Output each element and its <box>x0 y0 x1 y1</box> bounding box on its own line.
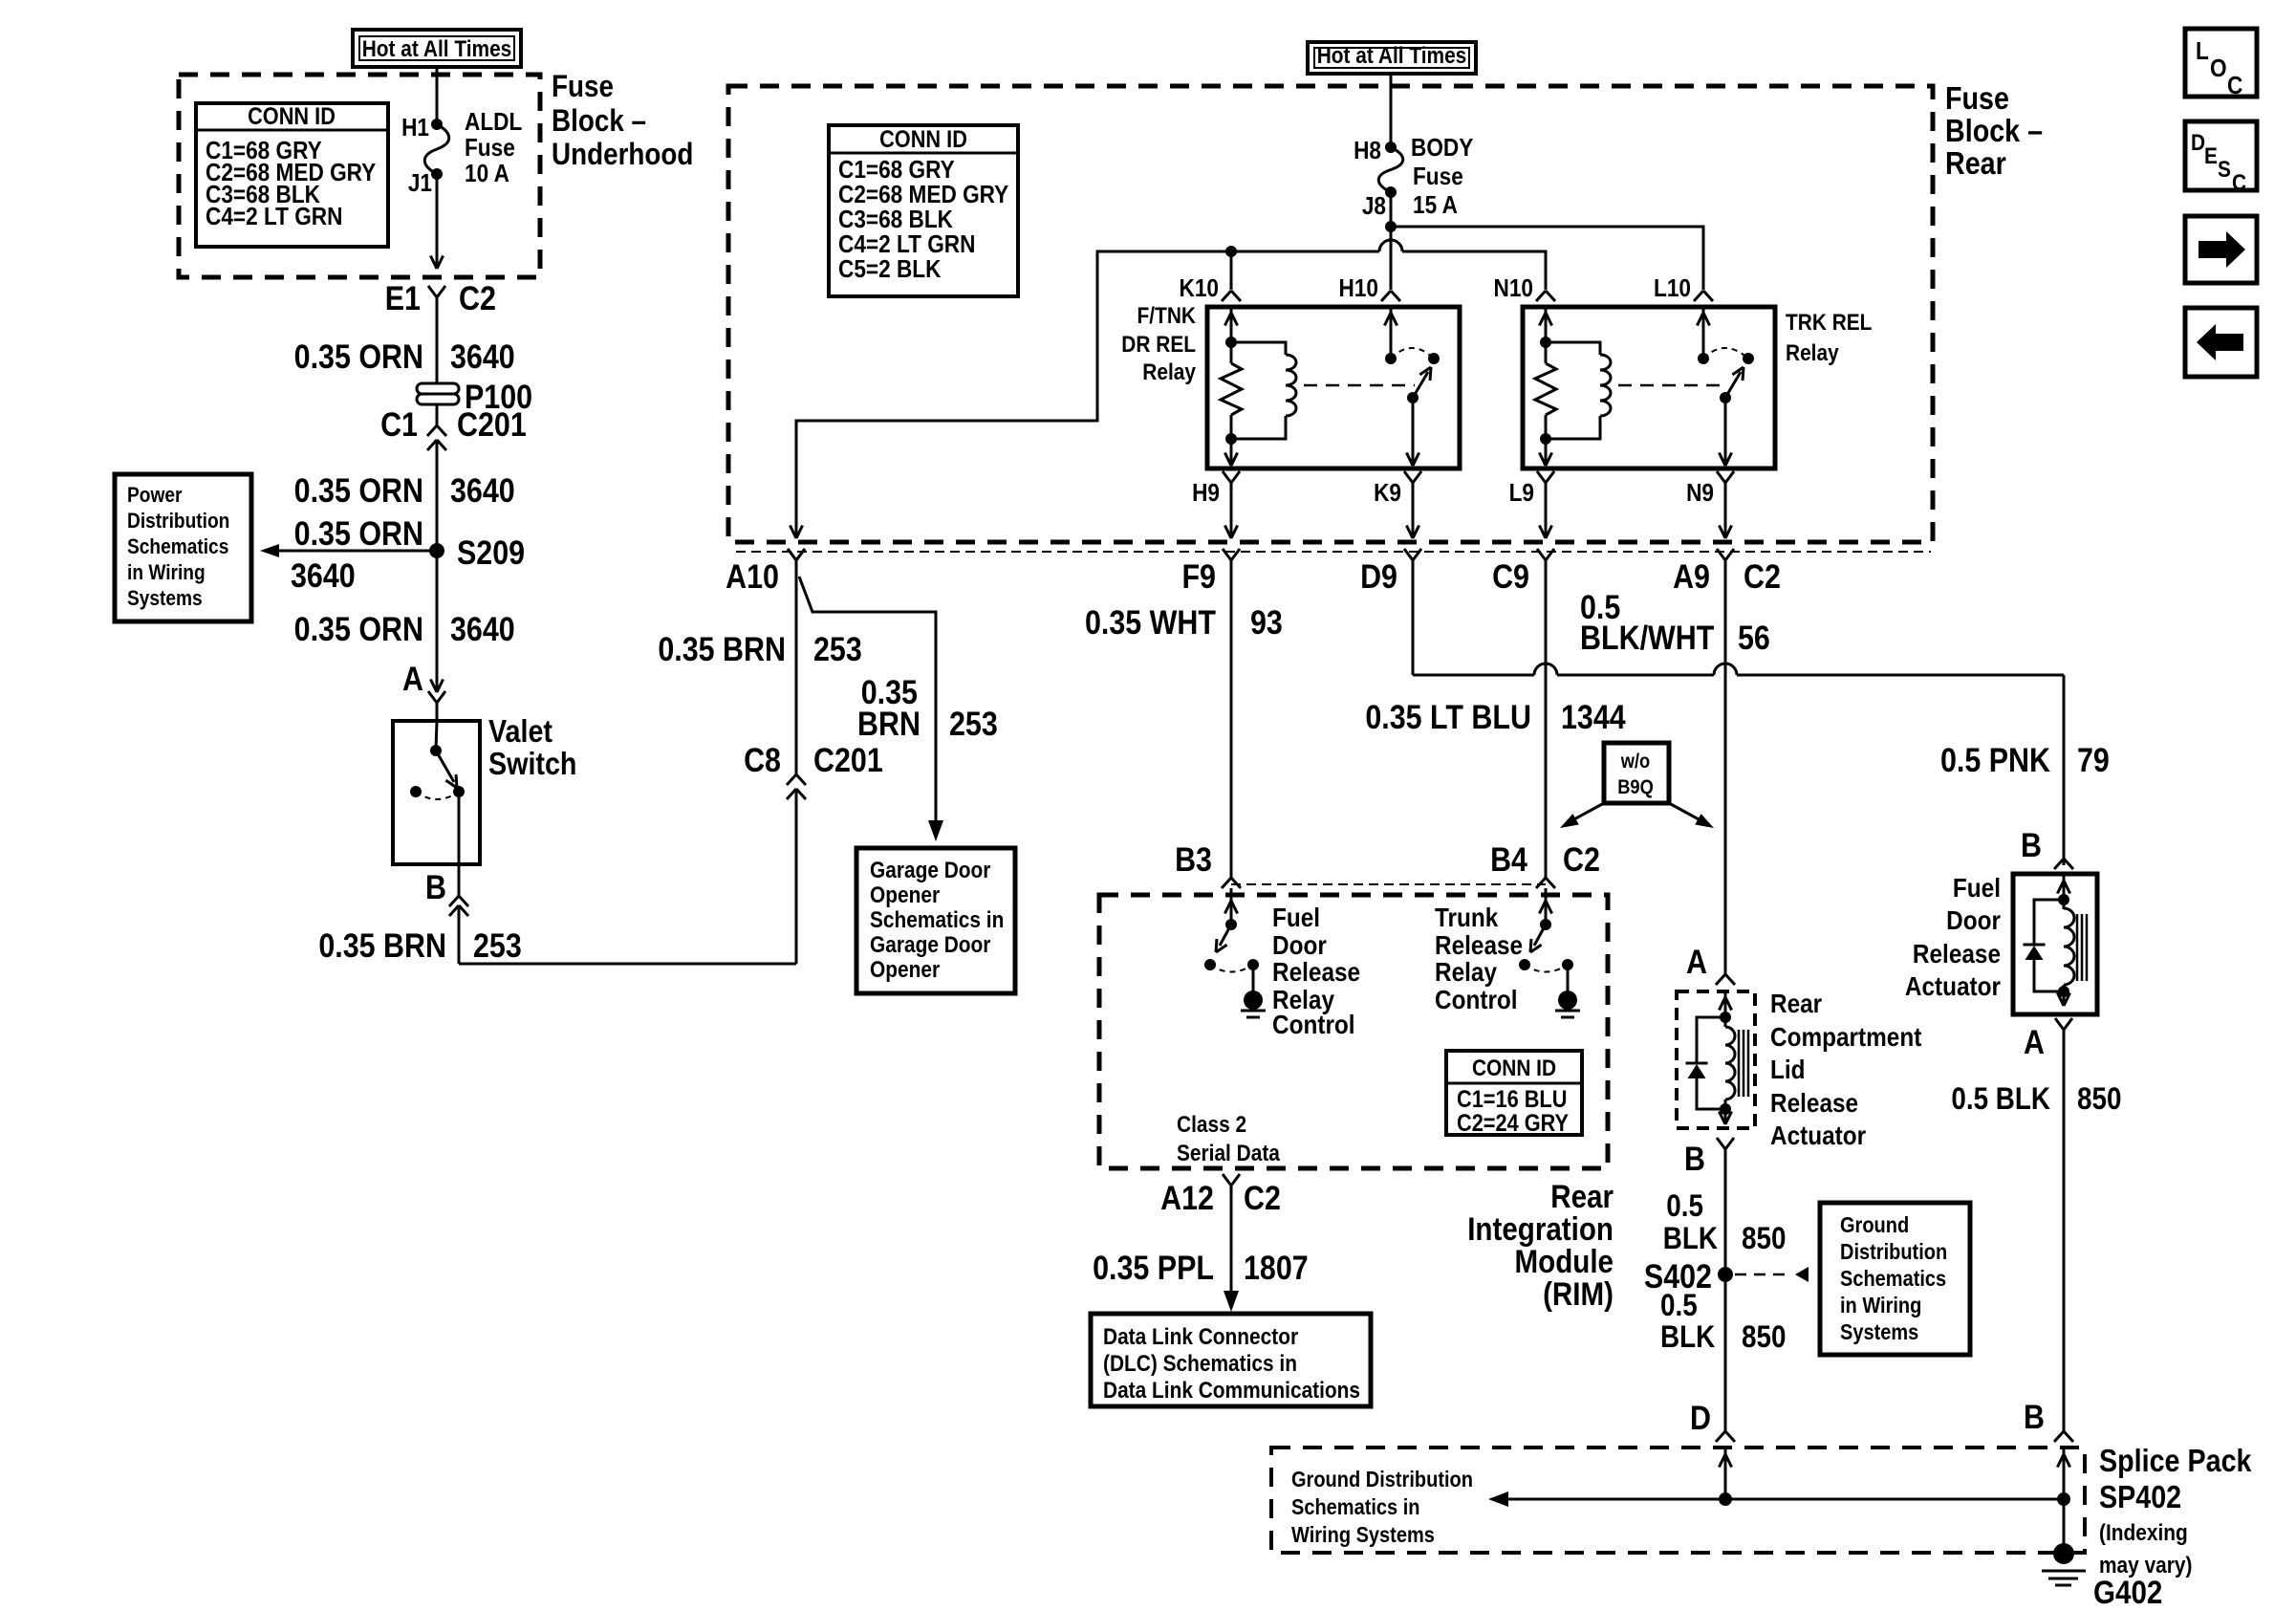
svg-text:0.35 BRN: 0.35 BRN <box>658 630 786 667</box>
svg-text:B: B <box>425 868 446 905</box>
svg-text:CONN ID: CONN ID <box>248 103 336 130</box>
svg-text:Actuator: Actuator <box>1770 1120 1866 1150</box>
svg-text:BODY: BODY <box>1411 135 1473 163</box>
svg-text:B: B <box>2024 1398 2045 1435</box>
svg-text:D: D <box>2191 130 2205 156</box>
svg-text:1344: 1344 <box>1561 698 1626 735</box>
svg-text:B4: B4 <box>1490 840 1528 878</box>
svg-text:Release: Release <box>1272 956 1360 987</box>
svg-text:C2: C2 <box>1244 1179 1281 1216</box>
svg-text:C2: C2 <box>459 279 496 316</box>
svg-text:C4=2 LT GRN: C4=2 LT GRN <box>206 204 342 231</box>
svg-text:850: 850 <box>2077 1082 2121 1116</box>
svg-text:C2=24 GRY: C2=24 GRY <box>1457 1110 1569 1137</box>
svg-text:BLK: BLK <box>1660 1320 1716 1354</box>
svg-text:Release: Release <box>1770 1087 1858 1118</box>
svg-text:C201: C201 <box>457 405 527 443</box>
svg-text:0.5 BLK: 0.5 BLK <box>1951 1082 2050 1116</box>
svg-text:B9Q: B9Q <box>1617 776 1654 798</box>
svg-text:H1: H1 <box>401 115 429 142</box>
svg-text:L10: L10 <box>1654 275 1691 303</box>
svg-text:10 A: 10 A <box>465 161 509 188</box>
svg-text:Module: Module <box>1515 1243 1614 1279</box>
svg-text:F/TNK: F/TNK <box>1137 303 1197 329</box>
svg-text:0.5: 0.5 <box>1666 1189 1703 1223</box>
svg-text:15 A: 15 A <box>1413 192 1458 220</box>
svg-text:Opener: Opener <box>870 882 940 908</box>
svg-text:H10: H10 <box>1339 275 1378 303</box>
svg-text:D: D <box>1690 1399 1711 1436</box>
svg-text:Schematics: Schematics <box>1840 1266 1946 1292</box>
svg-text:0.5 PNK: 0.5 PNK <box>1940 741 2050 778</box>
svg-text:Relay: Relay <box>1435 956 1497 987</box>
svg-text:H9: H9 <box>1192 480 1220 508</box>
svg-text:A: A <box>1686 943 1707 980</box>
svg-text:TRK REL: TRK REL <box>1786 310 1873 336</box>
svg-text:Distribution: Distribution <box>1840 1239 1947 1265</box>
svg-text:Systems: Systems <box>127 587 203 611</box>
svg-text:Ground: Ground <box>1840 1212 1909 1238</box>
svg-text:L: L <box>2196 38 2209 66</box>
svg-text:Schematics in: Schematics in <box>870 907 1004 933</box>
svg-text:SP402: SP402 <box>2099 1479 2181 1514</box>
svg-text:CONN ID: CONN ID <box>1472 1056 1556 1081</box>
svg-text:Schematics: Schematics <box>127 535 228 559</box>
svg-text:C: C <box>2232 170 2246 196</box>
svg-text:850: 850 <box>1742 1320 1786 1354</box>
svg-text:(Indexing: (Indexing <box>2099 1520 2188 1546</box>
svg-text:B: B <box>1684 1140 1705 1177</box>
svg-text:w/o: w/o <box>1620 751 1650 773</box>
svg-text:Garage Door: Garage Door <box>870 932 991 958</box>
svg-text:Integration: Integration <box>1467 1210 1614 1247</box>
svg-text:253: 253 <box>813 630 862 667</box>
svg-text:C: C <box>2227 73 2242 100</box>
svg-text:Block –: Block – <box>1945 113 2043 148</box>
svg-text:Opener: Opener <box>870 957 940 983</box>
svg-text:253: 253 <box>949 705 998 742</box>
svg-text:J8: J8 <box>1362 193 1386 221</box>
svg-text:C9: C9 <box>1492 557 1529 595</box>
svg-text:1807: 1807 <box>1244 1249 1309 1286</box>
svg-text:Rear: Rear <box>1550 1178 1614 1214</box>
svg-text:Fuse: Fuse <box>1945 80 2009 116</box>
svg-text:0.35 PPL: 0.35 PPL <box>1093 1249 1214 1286</box>
svg-text:Compartment: Compartment <box>1770 1021 1922 1052</box>
svg-text:E1: E1 <box>385 279 421 316</box>
svg-text:0.35 ORN: 0.35 ORN <box>294 337 423 375</box>
svg-text:Schematics in: Schematics in <box>1291 1494 1420 1520</box>
svg-text:Valet: Valet <box>488 713 552 749</box>
svg-text:Hot at All Times: Hot at All Times <box>362 36 512 62</box>
svg-text:N10: N10 <box>1494 275 1533 303</box>
svg-text:Systems: Systems <box>1840 1319 1918 1345</box>
svg-text:L9: L9 <box>1509 480 1534 508</box>
svg-text:3640: 3640 <box>291 556 356 594</box>
svg-text:K9: K9 <box>1374 480 1401 508</box>
svg-text:253: 253 <box>473 926 522 964</box>
svg-text:K10: K10 <box>1180 275 1219 303</box>
svg-text:O: O <box>2210 55 2227 83</box>
svg-text:0.35 LT BLU: 0.35 LT BLU <box>1365 698 1531 735</box>
svg-text:B3: B3 <box>1175 840 1212 878</box>
svg-text:93: 93 <box>1250 603 1283 641</box>
svg-text:ALDL: ALDL <box>465 109 522 137</box>
svg-text:Door: Door <box>1946 904 2001 935</box>
svg-text:Actuator: Actuator <box>1905 970 2001 1001</box>
svg-text:J1: J1 <box>408 170 432 198</box>
svg-text:C1: C1 <box>380 405 418 443</box>
svg-text:Trunk: Trunk <box>1435 902 1499 932</box>
svg-text:0.35 ORN: 0.35 ORN <box>294 610 423 647</box>
svg-text:3640: 3640 <box>450 471 515 509</box>
svg-text:Rear: Rear <box>1770 988 1822 1018</box>
svg-text:D9: D9 <box>1360 557 1397 595</box>
svg-text:B: B <box>2021 826 2042 863</box>
svg-text:Ground Distribution: Ground Distribution <box>1291 1467 1473 1492</box>
svg-text:S209: S209 <box>457 533 525 571</box>
svg-text:79: 79 <box>2077 741 2110 778</box>
svg-text:Control: Control <box>1272 1009 1355 1039</box>
svg-text:Splice Pack: Splice Pack <box>2099 1443 2252 1478</box>
svg-text:Garage Door: Garage Door <box>870 858 991 883</box>
svg-text:DR REL: DR REL <box>1121 332 1196 358</box>
svg-text:3640: 3640 <box>450 610 515 647</box>
svg-text:A: A <box>402 660 423 697</box>
svg-text:BRN: BRN <box>857 705 921 742</box>
svg-text:N9: N9 <box>1686 480 1714 508</box>
svg-text:C201: C201 <box>813 741 883 778</box>
svg-text:A: A <box>2024 1023 2045 1060</box>
svg-text:S: S <box>2218 157 2231 183</box>
svg-text:F9: F9 <box>1181 557 1216 595</box>
svg-text:Data Link Connector: Data Link Connector <box>1103 1324 1298 1350</box>
svg-text:Hot at All Times: Hot at All Times <box>1317 43 1467 69</box>
svg-text:Fuse: Fuse <box>552 70 614 103</box>
svg-text:C8: C8 <box>744 741 781 778</box>
svg-text:Power: Power <box>127 484 182 508</box>
svg-text:BLK/WHT: BLK/WHT <box>1580 619 1714 656</box>
svg-text:Serial Data: Serial Data <box>1177 1141 1280 1166</box>
svg-text:Control: Control <box>1435 984 1518 1014</box>
svg-text:C2=68 MED GRY: C2=68 MED GRY <box>838 182 1008 209</box>
svg-text:Relay: Relay <box>1786 340 1839 366</box>
svg-text:(DLC) Schematics in: (DLC) Schematics in <box>1103 1351 1297 1377</box>
svg-text:C5=2 BLK: C5=2 BLK <box>838 256 942 284</box>
svg-text:(RIM): (RIM) <box>1543 1275 1614 1312</box>
svg-text:C4=2 LT GRN: C4=2 LT GRN <box>838 231 975 259</box>
svg-text:G402: G402 <box>2093 1574 2162 1610</box>
svg-text:C1=68 GRY: C1=68 GRY <box>838 157 955 185</box>
svg-text:Release: Release <box>1913 938 2001 969</box>
svg-text:A9: A9 <box>1673 557 1710 595</box>
svg-text:C3=68 BLK: C3=68 BLK <box>838 207 953 234</box>
svg-text:Fuse: Fuse <box>1413 163 1463 191</box>
svg-text:0.5: 0.5 <box>1660 1289 1698 1322</box>
svg-text:Class 2: Class 2 <box>1177 1112 1246 1138</box>
svg-text:C2: C2 <box>1563 840 1600 878</box>
svg-text:Fuel: Fuel <box>1953 872 2001 903</box>
svg-text:A12: A12 <box>1160 1179 1214 1216</box>
svg-text:Switch: Switch <box>488 746 576 781</box>
svg-text:BLK: BLK <box>1663 1222 1719 1255</box>
svg-text:in Wiring: in Wiring <box>127 561 206 585</box>
svg-text:3640: 3640 <box>450 337 515 375</box>
svg-text:Block –: Block – <box>552 104 646 138</box>
svg-text:Fuse: Fuse <box>465 135 515 163</box>
svg-text:CONN ID: CONN ID <box>879 126 967 153</box>
svg-text:850: 850 <box>1742 1222 1786 1255</box>
svg-text:Data Link Communications: Data Link Communications <box>1103 1378 1360 1404</box>
svg-text:Rear: Rear <box>1945 145 2006 181</box>
svg-text:Distribution: Distribution <box>127 510 229 533</box>
svg-text:0.35 ORN: 0.35 ORN <box>294 514 423 552</box>
svg-text:C1=16 BLU: C1=16 BLU <box>1457 1086 1567 1113</box>
svg-text:Relay: Relay <box>1142 359 1196 385</box>
svg-text:A10: A10 <box>726 557 779 595</box>
svg-text:in Wiring: in Wiring <box>1840 1293 1921 1318</box>
svg-text:H8: H8 <box>1354 138 1381 165</box>
svg-text:Wiring Systems: Wiring Systems <box>1291 1522 1435 1548</box>
svg-text:56: 56 <box>1738 619 1770 656</box>
svg-text:0.35 BRN: 0.35 BRN <box>318 926 446 964</box>
svg-text:C2: C2 <box>1744 557 1781 595</box>
svg-text:0.35 WHT: 0.35 WHT <box>1085 603 1216 641</box>
svg-text:Lid: Lid <box>1770 1054 1806 1084</box>
svg-text:Underhood: Underhood <box>552 138 693 171</box>
svg-text:Fuel: Fuel <box>1272 902 1320 932</box>
svg-text:E: E <box>2204 143 2218 169</box>
svg-text:0.35 ORN: 0.35 ORN <box>294 471 423 509</box>
